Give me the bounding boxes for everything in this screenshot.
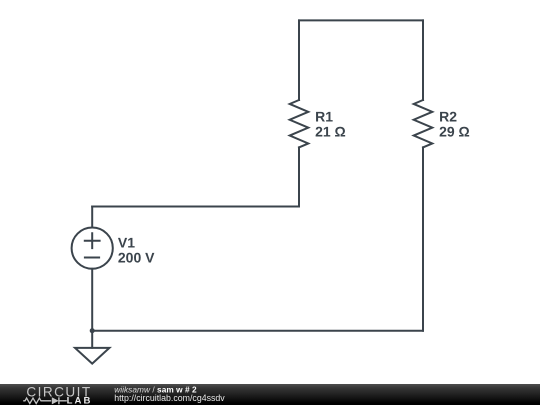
svg-text:29 Ω: 29 Ω — [439, 124, 470, 140]
resistor R1 — [290, 100, 309, 147]
wire R1 bottom lead — [298, 147, 300, 206]
logo resistor-diode squiggle — [23, 397, 67, 404]
logo diode triangle — [52, 397, 59, 404]
resistor R2 — [414, 100, 433, 147]
wire R1 top lead — [298, 20, 300, 100]
wire mid horizontal V1 to R1 — [92, 206, 299, 208]
svg-text:LAB: LAB — [67, 396, 91, 405]
svg-text:21 Ω: 21 Ω — [315, 124, 346, 140]
voltage source V1 — [72, 228, 113, 269]
svg-text:200 V: 200 V — [118, 249, 155, 265]
svg-text:R1: R1 — [315, 109, 333, 125]
svg-text:V1: V1 — [118, 234, 135, 250]
wire V1 bottom lead — [91, 269, 93, 348]
ground — [75, 348, 109, 364]
junction node dot — [90, 328, 95, 333]
wire top horizontal node — [299, 19, 423, 21]
wire V1 top lead — [91, 207, 93, 228]
wire bottom horizontal node — [92, 330, 423, 332]
svg-text:http://circuitlab.com/cg4ssdv: http://circuitlab.com/cg4ssdv — [114, 393, 225, 403]
V1 minus sign — [85, 257, 99, 259]
V1 plus sign — [85, 233, 100, 248]
wire R2 top lead — [422, 20, 424, 100]
footer bar — [0, 384, 540, 405]
svg-text:R2: R2 — [439, 109, 457, 125]
wire R2 bottom lead — [422, 147, 424, 330]
